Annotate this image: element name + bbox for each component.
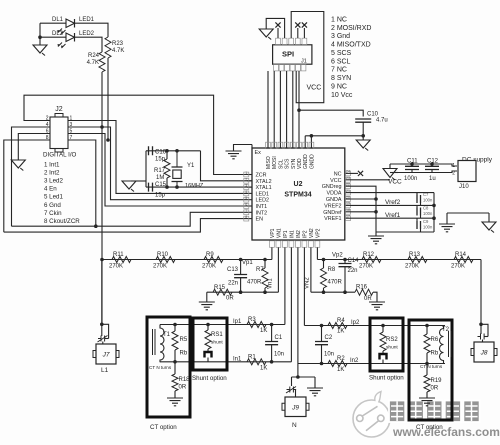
J2 left pin 6 number	[46, 129, 49, 135]
svg-text:C9: C9	[423, 219, 429, 224]
svg-text:Vn1: Vn1	[268, 278, 274, 289]
svg-text:R16: R16	[356, 285, 368, 291]
junction R17 bottom	[165, 185, 169, 189]
label In1	[233, 357, 242, 363]
svg-text:17: 17	[346, 215, 350, 219]
wire crystal left leg	[145, 151, 147, 187]
label C1	[275, 335, 283, 341]
label DL2	[52, 31, 64, 37]
wire VN1 drop	[277, 248, 279, 293]
U2 bottom pin VN2	[309, 228, 315, 247]
wire IN1 drop	[290, 248, 292, 362]
svg-text:In2: In2	[350, 358, 359, 364]
label DC supply	[462, 157, 493, 164]
U2 right pin 17 VREF1	[324, 215, 350, 223]
svg-text:GNDD: GNDD	[309, 154, 315, 169]
wire VREF2 row	[350, 204, 434, 206]
label RS1	[211, 332, 223, 338]
U2 bottom pin IP2	[302, 230, 308, 247]
wire supply gnd stub	[390, 172, 398, 174]
wire SCS	[286, 71, 288, 148]
junction C2 bottom	[320, 362, 324, 366]
svg-text:19: 19	[346, 202, 350, 206]
capacitor C1	[265, 325, 278, 362]
option box CT1	[147, 317, 190, 417]
svg-text:1: 1	[245, 171, 247, 175]
svg-text:1 NC: 1 NC	[331, 17, 347, 24]
svg-text:EN: EN	[256, 217, 264, 223]
resistor R3	[247, 322, 266, 328]
svg-text:21: 21	[346, 189, 350, 193]
ground earth right	[439, 213, 455, 232]
label C15	[155, 182, 167, 188]
label Vn2 rotated	[305, 277, 311, 289]
wire IP2 drop	[303, 248, 305, 326]
svg-text:shunt: shunt	[386, 345, 398, 351]
label R13	[409, 252, 421, 258]
label R7	[256, 267, 264, 273]
junction C14 top	[343, 258, 347, 262]
resistor R11	[112, 257, 131, 263]
junction R6 bottom	[425, 362, 429, 366]
svg-text:R5: R5	[180, 337, 188, 343]
wire MISO	[267, 71, 269, 148]
ground Ex	[226, 151, 242, 159]
junction x102 J2 pin3	[100, 125, 104, 129]
wire LED2 anode	[40, 36, 66, 38]
svg-text:LED1: LED1	[256, 191, 270, 197]
svg-text:GNDD: GNDD	[303, 154, 309, 169]
wire J7 drop	[101, 260, 103, 325]
wire VP2 drop	[316, 248, 318, 260]
label R17	[154, 168, 166, 174]
label C13	[227, 267, 239, 273]
U2 bottom pin VP2	[315, 228, 321, 247]
capacitor C15	[149, 183, 153, 192]
capacitor C16	[149, 146, 153, 155]
svg-text:R11: R11	[113, 252, 124, 258]
value R3 1K	[260, 328, 267, 334]
svg-text:100n: 100n	[423, 211, 433, 216]
wire SYN	[292, 71, 294, 148]
U2 right pin 20 GNDA	[326, 195, 351, 203]
svg-text:2 Int2: 2 Int2	[44, 170, 60, 177]
wire VN2 drop	[310, 248, 312, 293]
svg-text:100n: 100n	[423, 198, 433, 203]
U2 top pin MISO	[266, 142, 272, 169]
ground crystal	[122, 181, 136, 192]
junction R17 top	[165, 149, 169, 153]
resistor R12	[362, 257, 381, 263]
svg-text:VDD: VDD	[297, 158, 303, 169]
svg-text:3: 3	[245, 184, 247, 188]
value Y1 16MHZ	[185, 183, 204, 189]
svg-text:Vp2: Vp2	[332, 253, 343, 259]
label DIGITAL I/O	[43, 152, 77, 159]
svg-text:1M: 1M	[156, 175, 164, 181]
ground R16	[369, 302, 385, 310]
value C8 100n	[423, 211, 433, 216]
svg-text:18: 18	[346, 208, 350, 212]
svg-text:Ex: Ex	[255, 150, 262, 156]
wire IN2 drop	[297, 248, 299, 364]
junction LED common	[38, 35, 42, 39]
J2 right pin 5 number	[70, 129, 73, 135]
svg-text:6 Gnd: 6 Gnd	[44, 202, 61, 209]
svg-text:2 MOSI/RXD: 2 MOSI/RXD	[331, 25, 371, 32]
U2 bottom pin IN1	[289, 230, 295, 247]
wire J2 pin3 to LED2	[68, 127, 247, 200]
label R12	[363, 252, 375, 258]
U2 left pin 1 ZCR	[244, 171, 267, 179]
U2 right pin 22 GNDreg	[322, 183, 351, 191]
wire VREF1 row	[350, 217, 434, 219]
capacitor C8	[417, 208, 421, 216]
svg-text:DIGITAL I/O: DIGITAL I/O	[43, 152, 77, 159]
svg-text:8 SYN: 8 SYN	[331, 75, 351, 82]
U2 left pin 4 LED1	[244, 190, 269, 198]
J2 right pin 3 number	[70, 122, 73, 128]
svg-text:RS2: RS2	[386, 337, 398, 343]
label Ip2	[351, 320, 360, 326]
wire GNDD rail	[305, 135, 363, 137]
svg-text:INT1: INT1	[256, 204, 268, 210]
wire crystal top rail	[146, 150, 201, 152]
wire SCL	[279, 71, 281, 148]
junction J8 loop	[479, 323, 483, 327]
svg-text:IP2: IP2	[302, 230, 308, 238]
J2 pin list	[44, 162, 80, 225]
label R14	[455, 252, 467, 258]
svg-text:C16: C16	[155, 149, 167, 155]
value R8 470R	[328, 280, 343, 286]
label In2	[350, 358, 359, 364]
capacitor C11	[405, 164, 419, 173]
junction pin7 bus	[94, 224, 98, 228]
label R23	[112, 41, 124, 47]
svg-text:8 Ckout/ZCR: 8 Ckout/ZCR	[44, 218, 80, 225]
svg-text:15p: 15p	[155, 193, 166, 199]
U2 right pin 23 VCC	[330, 176, 350, 184]
junction J7 loop	[100, 323, 104, 327]
svg-text:270K: 270K	[451, 264, 465, 270]
svg-text:VCC: VCC	[307, 85, 322, 92]
svg-text:4 MISO/TXD: 4 MISO/TXD	[331, 42, 371, 49]
wire crystal right leg to XTAL2	[201, 151, 253, 181]
resistor R10	[156, 257, 175, 263]
svg-text:R4: R4	[337, 318, 345, 324]
svg-text:J2: J2	[55, 106, 63, 113]
label C11	[407, 159, 418, 165]
capacitor C13	[234, 260, 247, 293]
junction RS1 top	[206, 323, 210, 327]
value R24 4.7K	[87, 60, 99, 66]
label R24	[88, 53, 100, 59]
svg-text:R13: R13	[409, 252, 421, 258]
svg-text:Shunt option: Shunt option	[192, 375, 227, 382]
resistor R14	[454, 257, 473, 263]
wire J9 from In2	[297, 364, 299, 378]
wire supply rail1	[390, 164, 457, 166]
label R16	[356, 285, 368, 291]
svg-text:CT N turns: CT N turns	[420, 364, 443, 369]
svg-text:5 Led1: 5 Led1	[44, 194, 63, 201]
svg-text:VCC: VCC	[330, 178, 341, 184]
svg-text:470R: 470R	[247, 280, 262, 286]
no-connect X top2	[295, 22, 300, 27]
svg-text:C14: C14	[348, 258, 360, 264]
fuse symbol J7	[98, 324, 109, 344]
value C16 15p	[155, 157, 166, 163]
svg-text:shunt: shunt	[211, 340, 223, 346]
value R13 270K	[405, 264, 419, 270]
resistor R6	[424, 326, 430, 364]
resistor R7	[262, 260, 268, 293]
J2 right pin 7 number	[70, 135, 73, 141]
svg-text:270K: 270K	[405, 264, 419, 270]
label VCC supply	[388, 179, 402, 186]
wire J2 pin8 to bus	[4, 140, 50, 232]
svg-text:R17: R17	[154, 168, 166, 174]
svg-text:R12: R12	[363, 252, 375, 258]
label CT N turns right	[420, 364, 443, 369]
label STPM34	[284, 192, 311, 199]
wire Ex to ground	[234, 145, 253, 152]
connector J1 SPI box	[273, 45, 312, 64]
svg-text:C7: C7	[423, 192, 429, 197]
value R7 470R	[247, 280, 262, 286]
label R11	[113, 252, 124, 258]
junction VDD VCC rail	[297, 108, 301, 112]
svg-text:2: 2	[452, 171, 455, 177]
junction GNDD rail	[310, 134, 314, 138]
capacitor C9	[417, 221, 421, 229]
ground C10	[356, 140, 370, 151]
value C12 1u	[429, 176, 436, 182]
svg-text:R10: R10	[157, 252, 169, 258]
svg-text:10 Vcc: 10 Vcc	[331, 92, 353, 99]
U2 top pin SCS	[284, 142, 290, 169]
svg-text:VN2: VN2	[309, 228, 315, 238]
svg-text:R9: R9	[206, 252, 214, 258]
wire J2 pin5 to INT1	[68, 134, 247, 207]
svg-text:1 Int1: 1 Int1	[44, 162, 60, 169]
svg-text:Y1: Y1	[187, 163, 195, 169]
svg-text:www.elecfans.com: www.elecfans.com	[392, 425, 500, 439]
label Vn1 rotated	[268, 278, 274, 289]
svg-text:270K: 270K	[359, 264, 373, 270]
value R12 270K	[359, 264, 373, 270]
resistor R19	[424, 364, 430, 399]
junction R8 bottom	[322, 290, 326, 294]
wire Vp2 row	[317, 259, 481, 261]
capacitor C2	[315, 326, 328, 364]
label Vp2	[332, 253, 343, 259]
junction C12 top	[430, 162, 434, 166]
ground LED	[33, 45, 47, 56]
label Ip1	[233, 319, 242, 325]
svg-text:ZCR: ZCR	[256, 173, 267, 179]
svg-text:5: 5	[245, 196, 247, 200]
svg-text:R3: R3	[248, 317, 256, 323]
U2 left pin 8 EN	[244, 215, 263, 223]
svg-text:470R: 470R	[328, 280, 343, 286]
value R23 4.7K	[112, 48, 124, 54]
svg-text:N: N	[292, 422, 297, 429]
svg-text:100n: 100n	[404, 176, 417, 182]
junction J9 bar	[296, 375, 300, 379]
label R18	[179, 377, 191, 383]
resistor R1	[247, 359, 266, 365]
junction R5 bottom	[173, 360, 177, 364]
svg-text:7 NC: 7 NC	[331, 67, 347, 74]
value R17 1M	[156, 175, 164, 181]
option box shunt RS1	[193, 318, 227, 370]
no-connect X top1	[275, 22, 280, 27]
value R2 1K	[337, 367, 344, 373]
U2 right pin 24 NC	[334, 170, 351, 178]
spark gap J9	[286, 377, 296, 397]
svg-text:DL2: DL2	[52, 31, 64, 37]
label T1	[163, 332, 171, 338]
wire GNDref	[350, 211, 376, 213]
U2 right pin 19 VREF2	[324, 202, 350, 210]
U2 left pin 2 XTAL2	[244, 177, 272, 185]
label T2	[442, 327, 450, 333]
label J10	[459, 184, 469, 190]
svg-text:DL1: DL1	[52, 17, 64, 23]
svg-text:J10: J10	[459, 184, 469, 190]
resistor R15	[213, 289, 232, 295]
junction x108 J2 pin7	[106, 138, 110, 142]
svg-text:6 SCL: 6 SCL	[331, 58, 351, 65]
wire Vp1 row	[102, 259, 272, 261]
ground SPI	[259, 29, 273, 40]
ground Vref	[368, 232, 384, 244]
svg-text:IN2: IN2	[296, 230, 302, 238]
value C13 22n	[228, 281, 238, 287]
wire J1 ground loop	[266, 18, 284, 38]
wire VCC rail to C10	[299, 110, 363, 116]
wire LED1 anode	[40, 22, 66, 24]
svg-text:GNDreg: GNDreg	[322, 184, 342, 190]
svg-text:1K: 1K	[337, 329, 344, 335]
svg-text:0R: 0R	[226, 296, 234, 302]
ground J2 pin6	[11, 160, 25, 171]
wire R23 down	[107, 58, 109, 140]
U2 bottom pin VP1	[270, 228, 276, 247]
wire crystal ground stub	[131, 180, 146, 182]
svg-text:SPI: SPI	[282, 50, 294, 59]
value C2 10n	[324, 352, 334, 358]
U2 bottom pin IN2	[296, 230, 302, 247]
value R4 1K	[337, 329, 344, 335]
resistor R13	[408, 257, 427, 263]
svg-text:SYN: SYN	[291, 158, 297, 169]
label R4	[337, 318, 345, 324]
svg-text:VREF2: VREF2	[324, 203, 341, 209]
svg-text:0R: 0R	[179, 385, 187, 391]
svg-text:VN2: VN2	[305, 277, 311, 289]
svg-text:R15: R15	[214, 285, 226, 291]
svg-text:LED2: LED2	[79, 31, 95, 37]
U2 top pin GNDD	[303, 142, 309, 169]
label C7	[423, 192, 429, 197]
svg-text:22n: 22n	[228, 281, 238, 287]
label Vref2	[385, 199, 401, 206]
wire chassis bracket	[447, 212, 489, 214]
svg-text:7: 7	[245, 209, 247, 213]
label Shunt option left	[192, 375, 227, 382]
wire J2 pin7 to bus	[68, 140, 96, 226]
wire VP1 drop	[271, 248, 273, 260]
LED DL1	[58, 19, 75, 34]
label R9	[206, 252, 214, 258]
junction C13 bottom	[239, 290, 243, 294]
label C10	[367, 112, 379, 118]
label Vp1	[242, 260, 253, 266]
U2 top pin SCL	[278, 142, 284, 169]
label DL1	[52, 17, 64, 23]
label R3	[248, 317, 256, 323]
wire R24 down to J7 line	[101, 72, 103, 324]
svg-text:2: 2	[245, 177, 247, 181]
svg-text:4: 4	[245, 190, 247, 194]
label C9	[423, 219, 429, 224]
connector J9	[282, 397, 309, 417]
label Y1	[187, 163, 195, 169]
wire LED common	[39, 23, 41, 45]
connector J2	[50, 114, 68, 153]
wire VDDA row	[350, 192, 434, 194]
vref right vertical	[432, 193, 436, 232]
transformer T2	[440, 326, 452, 364]
connector J10	[458, 161, 476, 182]
wire J2 pin2 loop top	[24, 95, 247, 174]
junction C2 top	[320, 324, 324, 328]
J10 pin1 number	[452, 163, 455, 169]
svg-text:L1: L1	[101, 367, 109, 374]
svg-text:22n: 22n	[348, 268, 358, 274]
svg-text:3 Led2: 3 Led2	[44, 178, 63, 185]
resistor R18	[172, 362, 178, 398]
value C9 100n	[423, 225, 433, 230]
connector J8	[471, 342, 497, 362]
svg-text:4 En: 4 En	[44, 186, 57, 193]
label R15	[214, 285, 226, 291]
svg-text:8: 8	[245, 215, 247, 219]
svg-text:23: 23	[346, 176, 350, 180]
value R11 270K	[109, 264, 123, 270]
svg-text:T2: T2	[442, 327, 450, 333]
wire Vn2 row	[311, 291, 355, 293]
wire Ip2 row	[304, 325, 445, 327]
svg-text:MOSI: MOSI	[272, 156, 278, 169]
label C8	[423, 206, 429, 211]
wire supply rail top	[389, 164, 391, 169]
wire Ex stub	[251, 145, 253, 149]
svg-text:VP1: VP1	[270, 228, 276, 238]
svg-text:CT N turns: CT N turns	[149, 365, 172, 370]
wire VDD VCC	[298, 71, 300, 148]
capacitor C10	[355, 119, 371, 122]
value R19 0R	[431, 386, 439, 392]
svg-text:270K: 270K	[153, 264, 167, 270]
U2 top pin VDD	[297, 142, 303, 169]
svg-text:J9: J9	[291, 404, 299, 411]
resistor R5	[172, 325, 178, 362]
capacitor C7	[417, 193, 421, 203]
